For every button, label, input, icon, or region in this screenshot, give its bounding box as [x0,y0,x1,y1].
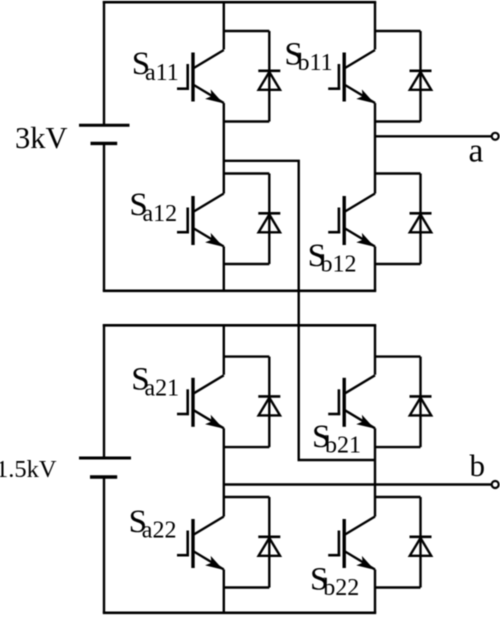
transistor Sb12 [328,194,375,247]
svg-text:a: a [469,133,484,170]
transistor Sa21 [177,375,224,428]
wire output line b [224,483,492,485]
svg-text:Sb11: Sb11 [284,36,332,76]
wire left battery lead upper cell 2 [103,324,105,458]
svg-text:Sa21: Sa21 [131,362,179,402]
svg-text:Sb12: Sb12 [308,238,357,278]
terminal b [492,481,499,488]
svg-text:Sb21: Sb21 [312,419,361,459]
wire leg a midpoint Sa21-Sa22 [223,428,225,516]
diode D-a12 [224,174,281,265]
battery V1 negative plate [91,142,118,145]
diode D-b12 [375,174,432,265]
wire bottom rail cell 1 [103,289,376,292]
diode D-a11 [224,31,281,122]
battery V2 positive plate [79,457,131,460]
wire leg b midpoint Sb11-Sb12 [374,103,376,194]
svg-text:Sa11: Sa11 [132,46,179,86]
wire left battery lead upper cell 1 [103,1,105,125]
svg-text:Sa12: Sa12 [129,187,177,227]
diode D-a22 [224,497,281,588]
wire leg a emitter Sa12 [223,247,225,291]
wire inter-cell link [224,161,375,460]
svg-text:b: b [470,448,486,483]
wire output line a [375,135,492,137]
diode D-b11 [375,31,432,122]
wire leg a collector Sa21 [223,325,225,375]
battery V1 positive plate [79,124,130,127]
diode D-b21 [375,357,432,448]
battery V2 negative plate [90,475,117,478]
transistor Sb21 [328,375,375,428]
svg-text:1.5kV: 1.5kV [0,456,57,483]
wire leg b collector Sb21 [374,325,376,375]
svg-text:3kV: 3kV [15,121,68,155]
terminal a [492,133,499,140]
transistor Sb22 [328,517,375,570]
transistor Sa11 [177,50,224,103]
transistor Sa12 [177,194,224,247]
wire leg b emitter Sb22 [374,570,376,613]
wire leg b emitter Sb12 [374,247,376,291]
wire leg b collector Sb11 [374,2,376,49]
wire leg a midpoint Sa11-Sa12 [223,103,225,194]
wire leg a collector Sa11 [223,2,225,49]
wire leg b midpoint Sb21-Sb22 [374,428,376,516]
diode D-b22 [375,497,432,588]
wire left battery lead lower cell 1 [103,143,105,291]
wire leg a emitter Sa22 [223,570,225,613]
wire bottom rail cell 2 [103,611,376,614]
transistor Sa22 [177,517,224,570]
svg-text:Sb22: Sb22 [310,561,359,601]
wire top rail cell 1 [103,1,376,4]
wire left battery lead lower cell 2 [103,477,105,613]
transistor Sb11 [328,50,375,103]
wire top rail cell 2 [103,324,376,327]
svg-text:Sa22: Sa22 [129,504,177,544]
diode D-a21 [224,357,281,448]
